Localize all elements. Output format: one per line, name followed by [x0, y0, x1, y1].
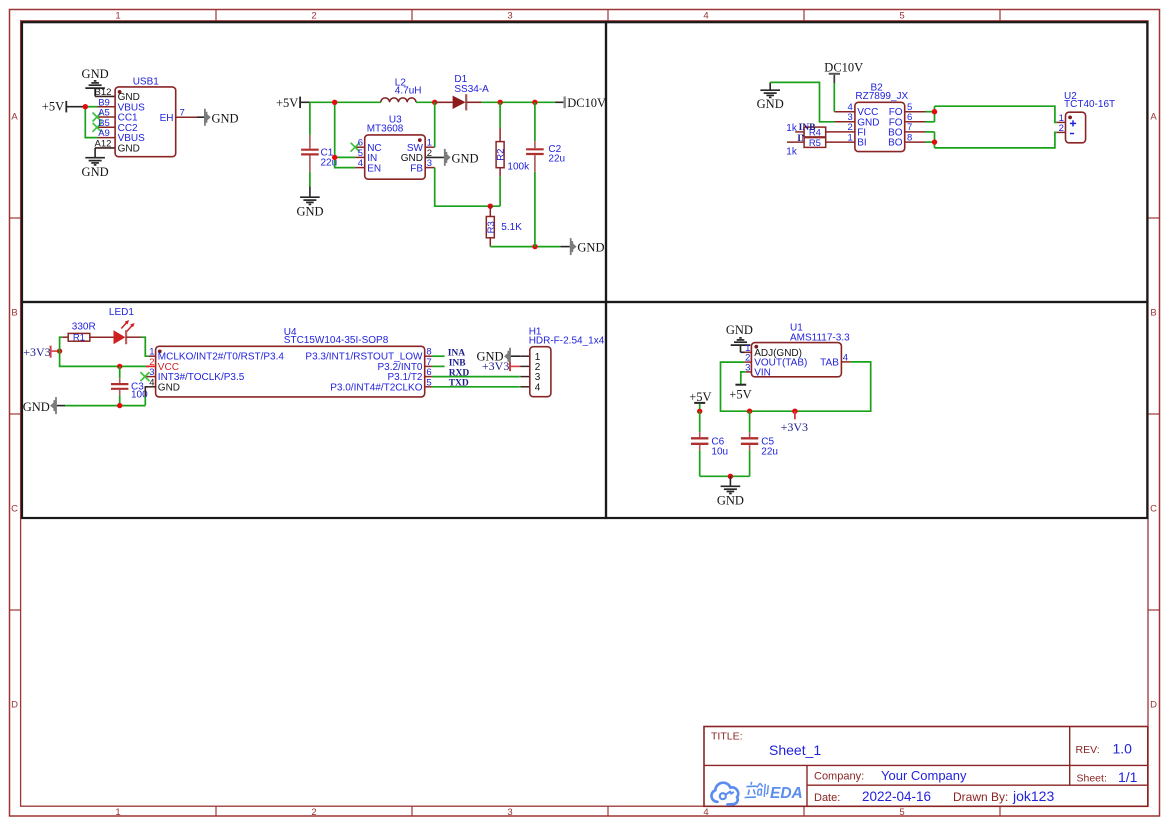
wire L2 to D1: [416, 101, 435, 103]
wire GND to B2 pin3: [770, 82, 834, 121]
column tick 2/3 bottom: [411, 807, 413, 817]
pin stub 7: [425, 365, 432, 367]
capacitor C5: [741, 411, 758, 476]
junction C2/GND: [532, 244, 537, 249]
no-connect cross CC1: [93, 113, 102, 122]
pin stub 4: [149, 386, 156, 388]
svg-text:5: 5: [899, 11, 904, 22]
svg-text:Your Company: Your Company: [881, 768, 967, 783]
svg-text:A: A: [11, 112, 18, 123]
svg-text:STC15W104-35I-SOP8: STC15W104-35I-SOP8: [284, 335, 389, 346]
svg-text:GND: GND: [757, 97, 784, 111]
pin stub 1 ADJ: [745, 351, 752, 353]
svg-text:EH: EH: [160, 113, 174, 124]
svg-text:R2: R2: [496, 149, 507, 161]
column tick 1/2 bottom: [215, 807, 217, 817]
wire rail to IN/EN: [335, 102, 355, 167]
svg-text:Company:: Company:: [814, 770, 864, 782]
svg-text:+3V3: +3V3: [23, 345, 50, 359]
svg-text:B: B: [11, 308, 17, 319]
pin stub 1: [149, 355, 156, 357]
svg-text:BI: BI: [857, 138, 866, 149]
pin stub 6: [425, 376, 432, 378]
capacitor C3: [111, 366, 128, 405]
connector H1 body: [520, 347, 551, 397]
junction IN/EN tap: [332, 155, 337, 160]
svg-text:1k: 1k: [786, 147, 798, 158]
title block logo cell divider: [806, 765, 808, 806]
net GND symbol (driver): [757, 82, 784, 111]
svg-text:2: 2: [311, 807, 316, 818]
svg-text:2022-04-16: 2022-04-16: [862, 789, 931, 804]
connector USB1 body: [115, 87, 176, 157]
net GND flag at EH: [204, 109, 239, 126]
svg-text:GND: GND: [717, 494, 744, 508]
junction R2 tap: [498, 100, 503, 105]
pin stub 3: [145, 376, 156, 378]
svg-text:TITLE:: TITLE:: [711, 731, 743, 743]
svg-text:TAB: TAB: [820, 358, 839, 369]
junction FO node: [932, 109, 937, 114]
svg-text:RXD: RXD: [449, 369, 470, 379]
U2 minus mark: [1070, 133, 1074, 135]
svg-text:INB: INB: [449, 359, 467, 369]
wire +3V3 to VCC: [60, 351, 149, 366]
title block outline: [704, 727, 1148, 807]
svg-text:4: 4: [703, 11, 708, 22]
net +5V flag at VIN: [729, 372, 751, 401]
svg-text:5.1K: 5.1K: [501, 222, 522, 233]
wire +5V rail to L2: [310, 101, 381, 103]
svg-text:MT3608: MT3608: [367, 123, 404, 134]
wire D1 to DC10V: [481, 101, 555, 103]
title block row divider 1: [704, 764, 1148, 766]
regulator U1 body: [751, 343, 841, 377]
svg-text:GND: GND: [726, 323, 753, 337]
net +3V3 flag below rail: [781, 411, 808, 434]
U2 plus mark: [1070, 120, 1076, 126]
junction +3V3 tap: [792, 409, 797, 414]
junction C3 bottom tap: [117, 403, 122, 408]
svg-text:TXD: TXD: [449, 379, 469, 389]
pin stub 5: [425, 386, 432, 388]
section rectangle mid-right: [606, 302, 1147, 518]
svg-text:4: 4: [843, 353, 848, 364]
USB1 pin1 marker dot: [118, 90, 122, 94]
svg-text:2: 2: [1059, 123, 1064, 134]
pin stub 5 FO: [905, 111, 926, 113]
svg-text:EN: EN: [367, 163, 381, 174]
svg-text:USB1: USB1: [133, 76, 160, 87]
resistor R2: [496, 102, 504, 206]
wire GND to pin4: [145, 387, 148, 406]
wire +5V to VBUS pins: [85, 107, 97, 138]
resistor R5: [787, 138, 855, 148]
svg-text:EDA: EDA: [770, 785, 803, 802]
wire INB stub: [432, 365, 445, 367]
svg-text:GND: GND: [82, 165, 109, 179]
pin stub 7 BO: [905, 131, 926, 133]
pin stub 3 FB: [425, 167, 435, 169]
wire LED to pin1: [141, 337, 149, 356]
net +5V flag at C6: [689, 390, 711, 411]
svg-text:4.7uH: 4.7uH: [395, 86, 422, 97]
pin stub 2: [146, 365, 156, 367]
column tick 4/5 bottom: [803, 807, 805, 817]
svg-text:VIN: VIN: [754, 368, 771, 379]
svg-text:+5V: +5V: [42, 100, 64, 114]
column tick 3/4 top: [607, 10, 609, 21]
svg-text:GND: GND: [296, 205, 323, 219]
wire RXD to H1 pin3: [432, 376, 520, 378]
svg-text:LED1: LED1: [109, 307, 134, 318]
row tick A/B left: [10, 217, 21, 219]
svg-text:3: 3: [507, 807, 512, 818]
wire +3V3 to R1: [60, 337, 63, 351]
net GND flag at H1 pin1: [477, 348, 521, 365]
svg-text:Drawn By:: Drawn By:: [953, 790, 1008, 804]
row tick C/D right: [1148, 609, 1159, 611]
section rectangle top-left: [22, 22, 606, 302]
junction +3V3 node: [57, 348, 62, 353]
svg-text:SS34-A: SS34-A: [454, 84, 489, 95]
svg-text:GND: GND: [452, 152, 479, 166]
wire TXD to H1 pin4: [432, 386, 520, 388]
U2 pin1 marker dot: [1068, 116, 1072, 120]
svg-text:jok123: jok123: [1012, 788, 1054, 804]
svg-text:1.0: 1.0: [1113, 740, 1133, 756]
svg-text:10u: 10u: [711, 446, 728, 457]
svg-text:1: 1: [115, 807, 120, 818]
wire GND to ADJ pin1: [741, 351, 745, 353]
no-connect cross pin3: [140, 372, 149, 381]
svg-text:B: B: [1150, 308, 1156, 319]
svg-text:BO: BO: [888, 138, 903, 149]
capacitor C2: [526, 102, 544, 246]
svg-text:22u: 22u: [548, 153, 565, 164]
IC U3 body: [365, 135, 426, 179]
resistor R3: [486, 206, 494, 246]
svg-text:DC10V: DC10V: [567, 96, 606, 110]
net DC10V flag: [555, 96, 606, 110]
svg-text:FB: FB: [410, 163, 423, 174]
row tick B/C left: [10, 413, 21, 415]
svg-text:Sheet_1: Sheet_1: [769, 742, 821, 758]
title block rev column divider: [1069, 727, 1071, 786]
junction FB/R3: [488, 204, 493, 209]
net +5V flag (USB input): [42, 100, 86, 114]
junction +5V/C6: [697, 409, 702, 414]
pin stub 8 BO: [905, 141, 926, 143]
svg-text:INA: INA: [448, 348, 466, 358]
LED LED1: [114, 320, 142, 344]
pin stub B5 CC2: [98, 126, 116, 128]
net +3V3 flag at H1 pin2: [482, 359, 520, 373]
svg-text:5: 5: [899, 807, 904, 818]
svg-text:R3: R3: [486, 221, 497, 233]
svg-text:+5V: +5V: [729, 387, 751, 401]
svg-text:P3.0/INT4#/T2CLKO: P3.0/INT4#/T2CLKO: [330, 382, 422, 393]
svg-text:4: 4: [703, 807, 708, 818]
junction ground rail: [728, 474, 733, 479]
net GND flag at U3 pin2: [444, 149, 479, 166]
row tick A/B right: [1148, 217, 1159, 219]
section rectangle top-right: [606, 22, 1147, 302]
wire GND to pin B12: [95, 95, 115, 97]
column tick 2/3 top: [411, 10, 413, 21]
U4 pin1 marker dot: [158, 350, 162, 354]
svg-text:3: 3: [507, 11, 512, 22]
pin stub 6 NC: [355, 146, 365, 148]
svg-text:1: 1: [115, 11, 120, 22]
logo glyph chuang (创): [757, 783, 769, 797]
logo glyph li (立): [745, 782, 757, 798]
net GND symbol above USB1: [82, 67, 109, 96]
wire BO pair to U2 pin2: [926, 132, 1057, 148]
svg-text:R5: R5: [809, 138, 821, 149]
column tick 4/5 top: [803, 10, 805, 21]
junction SW node: [432, 100, 437, 105]
U3 pin1 marker dot: [418, 138, 422, 142]
svg-text:1k: 1k: [786, 123, 798, 134]
inductor L2: [381, 98, 416, 102]
no-connect cross NC: [351, 143, 360, 152]
IC U4 body: [156, 346, 425, 397]
pin stub A9 VBUS: [98, 137, 116, 139]
column tick 5/6 bottom: [999, 807, 1001, 817]
svg-text:GND: GND: [158, 382, 180, 393]
svg-text:4: 4: [535, 382, 541, 393]
capacitor C1: [301, 102, 319, 186]
net GND symbol above U1: [726, 323, 753, 352]
svg-text:4: 4: [149, 377, 154, 388]
column tick 1/2 top: [215, 10, 217, 21]
title block row divider 2: [807, 784, 1148, 786]
net +5V flag (boost input): [276, 96, 310, 110]
svg-text:C: C: [1150, 504, 1157, 515]
svg-text:GND: GND: [23, 400, 50, 414]
svg-text:+3V3: +3V3: [781, 420, 808, 434]
junction +5V/VBUS: [83, 104, 88, 109]
svg-text:3: 3: [745, 363, 750, 374]
svg-text:INB: INB: [799, 123, 817, 133]
svg-text:+3V3: +3V3: [482, 359, 509, 373]
svg-text:330R: 330R: [72, 321, 96, 332]
pin stub A5 CC1: [98, 116, 116, 118]
pin stub 2 VOUT: [744, 361, 751, 363]
svg-text:Sheet:: Sheet:: [1077, 773, 1107, 785]
no-connect cross CC2: [93, 123, 102, 132]
net +3V3 flag (LED circuit): [23, 345, 59, 359]
diode D1 SS34-A: [435, 94, 482, 110]
svg-text:GND: GND: [577, 241, 604, 255]
svg-text:A: A: [1150, 112, 1157, 123]
pin stub 4 VCC: [834, 111, 855, 113]
column tick 5/6 top: [999, 10, 1001, 21]
junction rail/IN tap: [332, 100, 337, 105]
pin stub B9 VBUS: [98, 106, 116, 108]
wire R3 to GND: [490, 246, 560, 248]
U1 pin1 marker dot: [754, 345, 758, 349]
svg-text:HDR-F-2.54_1x4: HDR-F-2.54_1x4: [529, 335, 605, 346]
svg-text:GND: GND: [82, 67, 109, 81]
svg-text:4: 4: [358, 158, 363, 169]
pin stub EH pin 7: [176, 116, 204, 118]
net GND symbol below caps: [717, 476, 744, 507]
pin stub 3 GND: [834, 121, 855, 123]
svg-text:DC10V: DC10V: [824, 60, 863, 74]
pin stub 3 VIN: [746, 371, 752, 373]
transducer U2 body: [1057, 112, 1086, 143]
svg-text:GND: GND: [118, 144, 140, 155]
capacitor C6: [691, 411, 708, 476]
svg-text:REV:: REV:: [1076, 744, 1100, 756]
pin stub 2 GND: [425, 156, 444, 158]
wire FB to divider: [435, 168, 500, 207]
pin stub 6 FO: [905, 121, 926, 123]
net GND flag (LED circuit): [23, 397, 65, 414]
svg-text:A12: A12: [95, 139, 112, 150]
svg-text:RZ7899_JX: RZ7899_JX: [855, 91, 908, 102]
junction C2 tap: [532, 100, 537, 105]
net DC10V flag (driver supply): [824, 60, 863, 74]
wire FO pair to U2 pin1: [926, 106, 1057, 122]
net GND symbol below USB1: [82, 148, 109, 179]
net GND symbol below C1: [296, 187, 323, 219]
svg-text:+5V: +5V: [276, 96, 298, 110]
pin stub 4 EN: [355, 167, 365, 169]
resistor R4: [795, 127, 855, 137]
row tick C/D left: [10, 609, 21, 611]
wire SW to rail: [434, 102, 436, 147]
svg-text:100k: 100k: [507, 162, 530, 173]
svg-text:D: D: [1150, 700, 1157, 711]
pin stub 1 SW: [425, 146, 435, 148]
pin stub 4 TAB: [841, 361, 850, 363]
pin stub 8: [425, 355, 432, 357]
IC B2 body: [855, 102, 905, 151]
svg-text:1/1: 1/1: [1118, 769, 1138, 785]
resistor R1: [62, 333, 113, 341]
junction C5 tap: [747, 409, 752, 414]
svg-text:AMS1117-3.3: AMS1117-3.3: [790, 332, 850, 343]
wire VOUT loop to TAB: [721, 362, 871, 411]
column tick 3/4 bottom: [607, 807, 609, 817]
wire INA stub: [432, 355, 445, 357]
svg-text:22u: 22u: [761, 446, 778, 457]
svg-text:R1: R1: [73, 333, 85, 344]
svg-text:2: 2: [311, 11, 316, 22]
junction C3 top tap: [117, 364, 122, 369]
wire cap ground rail: [700, 475, 750, 477]
logo cloud icon: [711, 783, 738, 805]
net GND flag right: [560, 238, 604, 255]
svg-text:D: D: [11, 700, 18, 711]
pin stub 5 IN: [355, 156, 365, 158]
junction BO node: [932, 139, 937, 144]
svg-text:Date:: Date:: [814, 792, 840, 804]
svg-text:TCT40-16T: TCT40-16T: [1064, 99, 1115, 110]
svg-text:GND: GND: [212, 111, 239, 125]
wire DC10V to B2 pin4: [833, 75, 835, 112]
svg-text:C: C: [11, 504, 18, 515]
section rectangle mid-left: [22, 302, 606, 518]
wire GND rail bottom: [65, 405, 145, 407]
wire GND to pin A12: [95, 147, 115, 149]
row tick B/C right: [1148, 413, 1159, 415]
